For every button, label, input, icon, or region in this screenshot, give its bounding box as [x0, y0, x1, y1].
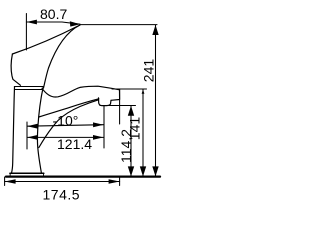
spout underside inner curve: [39, 99, 99, 117]
dim -10 left arrow: [27, 124, 38, 129]
svg-text:174.5: 174.5: [43, 187, 81, 203]
body column right edge: [37, 87, 43, 173]
spout nose extension line: [119, 89, 121, 124]
svg-text:121.4: 121.4: [57, 136, 92, 152]
dim 80.7 left arrow: [26, 20, 37, 25]
svg-text:-10°: -10°: [53, 113, 79, 129]
body joint band line: [14, 89, 42, 91]
top extension line: [81, 24, 158, 26]
base plate left side: [9, 174, 11, 176]
body column left edge: [12, 87, 15, 173]
dim 241 line: [155, 25, 157, 176]
dim 80.7 left extension line: [25, 14, 27, 51]
dim 121.4 left arrow: [27, 135, 38, 140]
dim 174.5 right extension line: [119, 177, 121, 186]
dim 141 bottom arrow: [140, 166, 146, 176]
dim 141 line: [142, 89, 144, 176]
dim 174.5 left extension line: [4, 177, 6, 186]
countertop line: [6, 175, 160, 177]
body cap line: [14, 86, 43, 88]
dim -10 line: [27, 125, 104, 127]
handle lever front edge: [44, 25, 81, 88]
handle lever top edge: [12, 25, 80, 54]
dim 80.7 right arrow: [70, 21, 80, 26]
spout top extension line: [112, 88, 147, 90]
base plate top line: [10, 172, 44, 174]
svg-text:241: 241: [141, 59, 157, 83]
aerator: [99, 98, 112, 106]
handle lever back edge: [11, 54, 20, 85]
svg-text:80.7: 80.7: [40, 6, 67, 22]
base plate right side: [43, 174, 45, 176]
aerator bottom extension line: [100, 105, 136, 107]
dim 241 bottom arrow: [152, 166, 158, 176]
spout top edge: [42, 86, 120, 97]
dim 174.5 right arrow: [109, 179, 120, 184]
dim 114.2 top arrow: [128, 106, 134, 116]
dim -10 right arrow: [93, 122, 104, 127]
svg-text:114.2: 114.2: [118, 129, 134, 163]
dim 121.4 line: [27, 136, 104, 138]
dim 114.2 line: [130, 106, 132, 176]
dim 141 top arrow: [142, 89, 145, 94]
dim 80.7 line: [26, 22, 80, 24]
spout nose right edge: [111, 90, 120, 101]
dim 121.4 right arrow: [93, 135, 104, 140]
dim 174.5 left arrow: [5, 179, 16, 184]
aerator centre extension line: [103, 106, 105, 148]
centerline extension line: [26, 122, 28, 149]
dim 174.5 line: [5, 181, 120, 183]
spout underside outer curve: [39, 100, 99, 148]
dim 241 top arrow: [152, 25, 158, 35]
dim 114.2 bottom arrow: [128, 166, 134, 176]
